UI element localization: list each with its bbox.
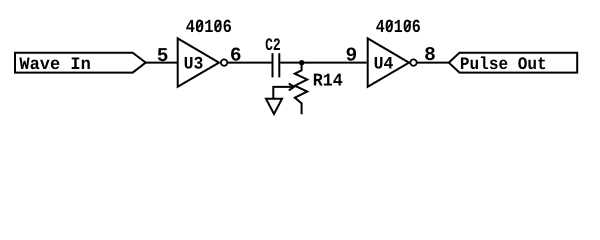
inverter U3 [178,38,228,86]
svg-text:U4: U4 [374,54,394,74]
part label 40106 for U3 [186,17,232,38]
svg-text:9: 9 [346,44,358,66]
svg-text:40106: 40106 [376,17,421,38]
part label 40106 for U4 [376,17,421,38]
net flag Wave In [15,53,146,75]
junction node [299,60,304,65]
svg-text:R14: R14 [313,72,343,92]
wiper arrow of R14 [273,84,294,99]
ground [266,99,282,114]
svg-text:Pulse Out: Pulse Out [460,55,547,75]
wire C2 to U4 input [280,62,366,64]
wire U3 output to C2 [227,62,272,64]
svg-text:Wave In: Wave In [19,55,90,75]
svg-text:U3: U3 [184,54,204,74]
resistor R14 body [295,63,307,115]
svg-text:5: 5 [157,45,169,67]
svg-text:C2: C2 [265,36,281,56]
svg-text:40106: 40106 [186,17,232,38]
net flag Pulse Out [449,53,577,75]
wire U4 output to Pulse Out [417,62,449,64]
capacitor C2 [273,53,280,77]
inverter U4 [368,38,417,86]
wire Wave In to U3 input [146,62,177,64]
